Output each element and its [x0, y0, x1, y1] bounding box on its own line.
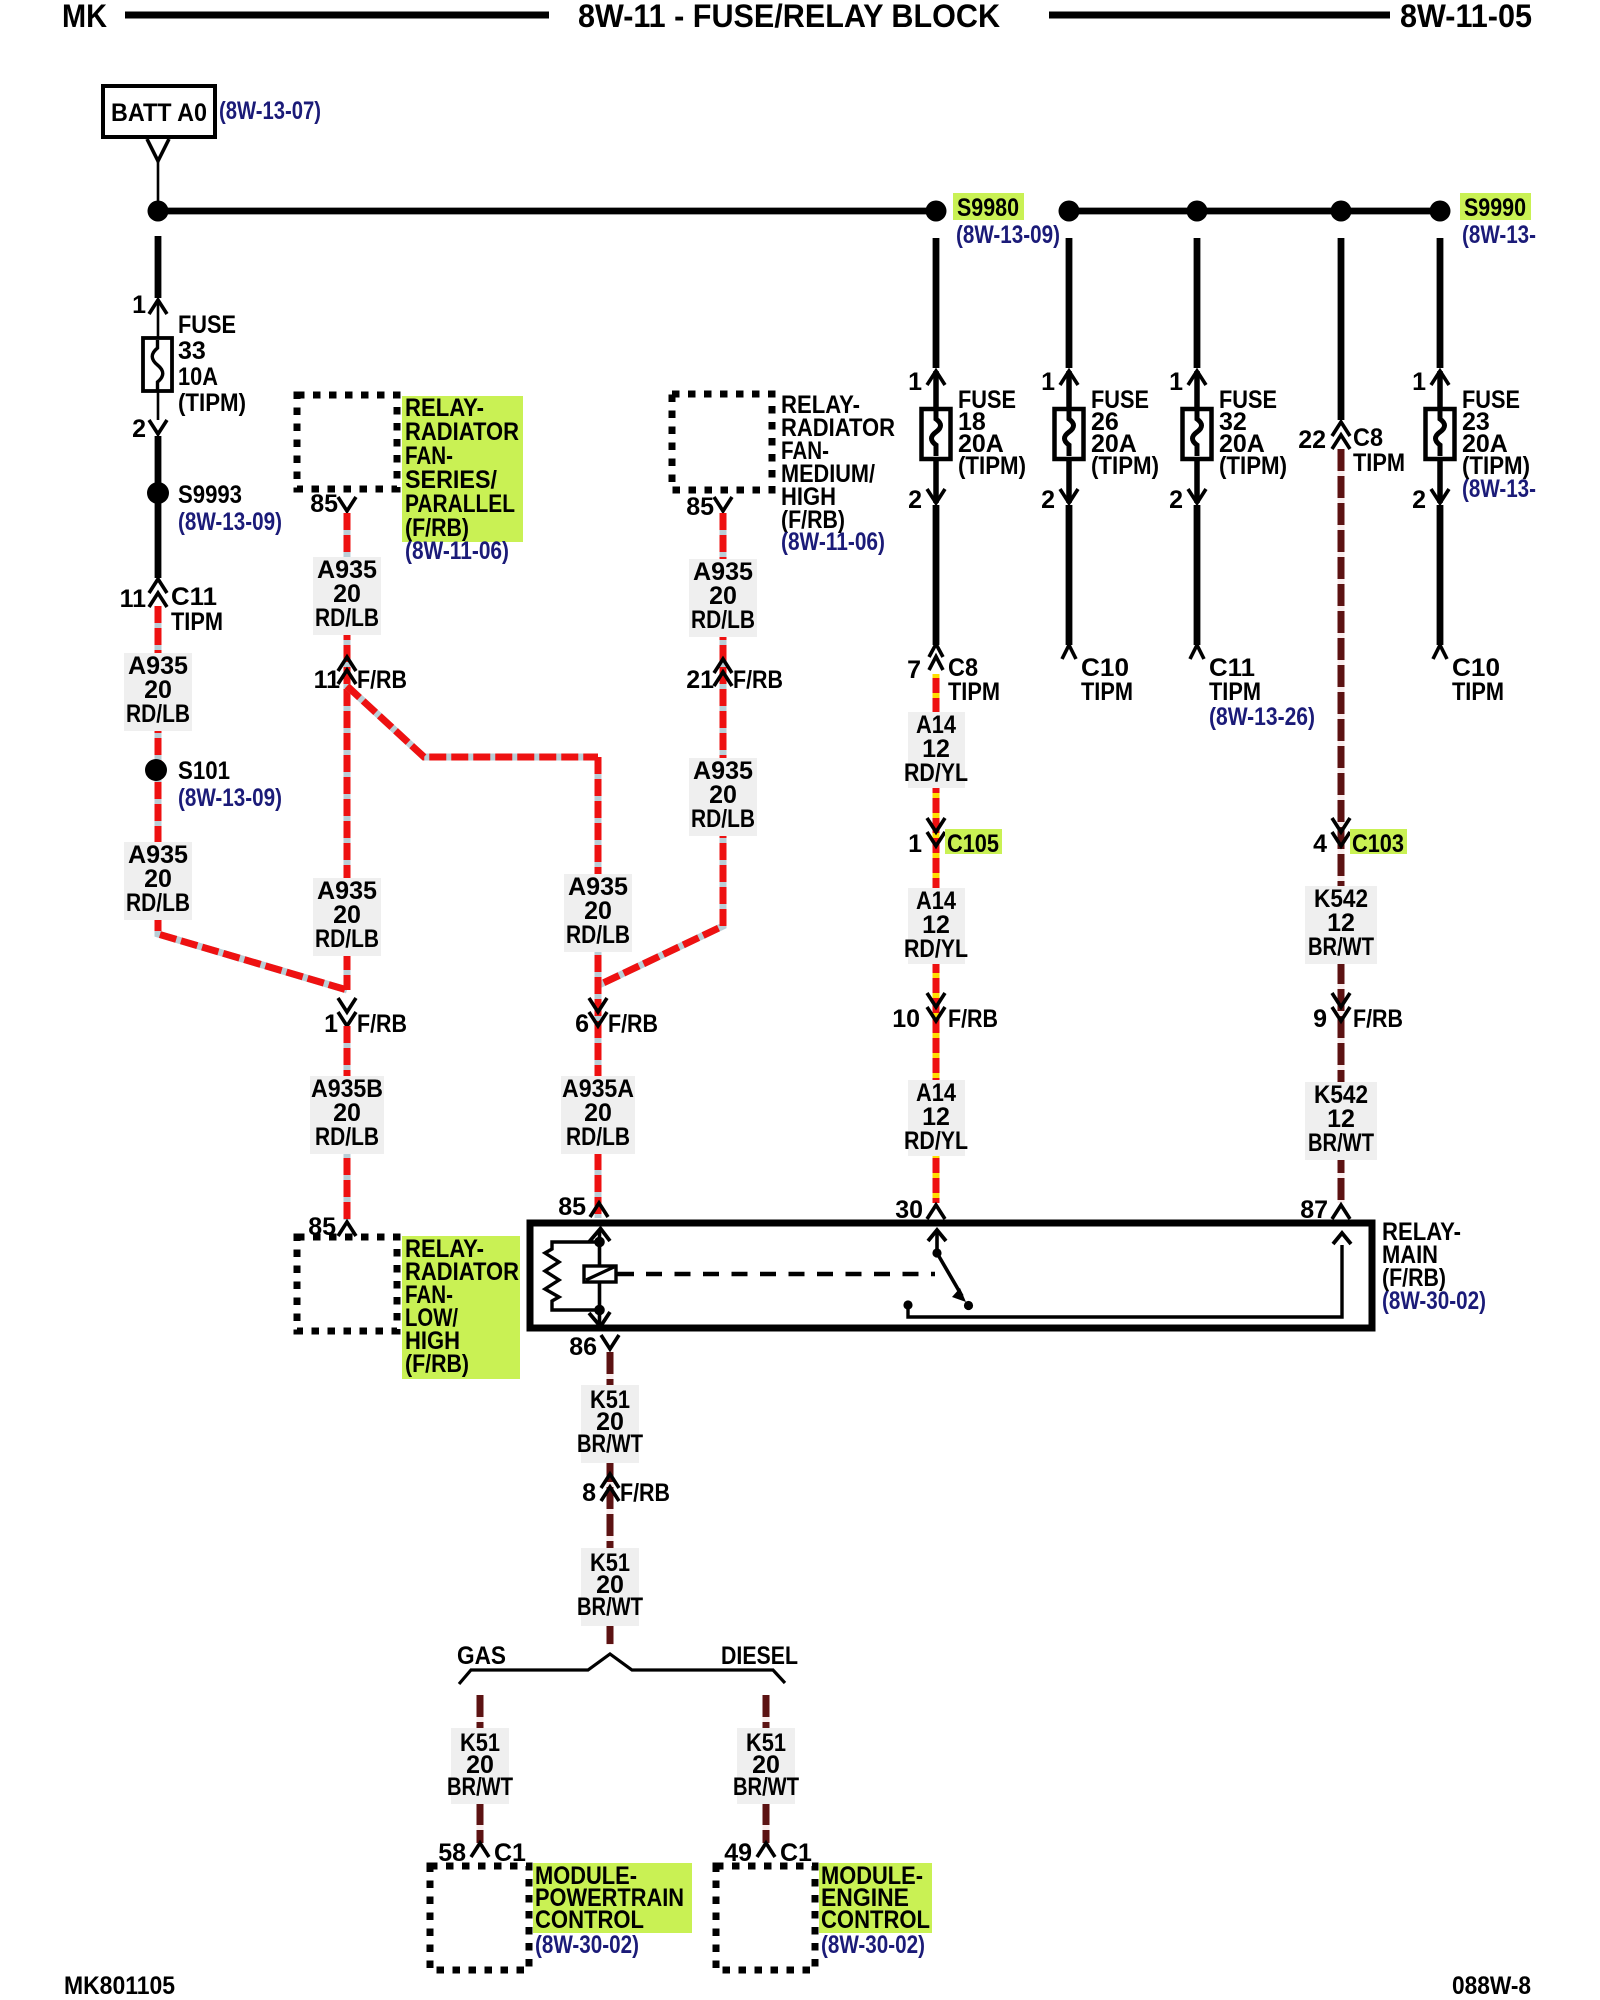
wire K51 20 BR/WT	[607, 1352, 614, 1645]
wire A935 20 RD/LB right run	[599, 513, 723, 985]
wire fuse 32 to C11	[1194, 505, 1201, 645]
svg-text:(8W-13-: (8W-13-	[1462, 221, 1536, 249]
svg-text:8W-11 - FUSE/RELAY BLOCK: 8W-11 - FUSE/RELAY BLOCK	[578, 0, 1000, 34]
header rule right	[1049, 12, 1390, 19]
svg-text:(8W-13-09): (8W-13-09)	[178, 784, 282, 812]
wire label K542 12 BR/WT	[1305, 1082, 1377, 1160]
fuse 33 10A (TIPM)	[143, 338, 172, 391]
svg-text:1: 1	[1412, 368, 1426, 396]
svg-text:RD/YL: RD/YL	[904, 1127, 968, 1155]
wire A935B 20 RD/LB	[344, 1026, 351, 1220]
relay main F/RB box	[530, 1223, 1372, 1328]
connector fork under BATT A0	[147, 139, 169, 161]
connector F/RB pin 9 arrows	[1332, 993, 1350, 1007]
svg-text:RD/LB: RD/LB	[566, 921, 630, 949]
wire label K51 20 BR/WT	[581, 1548, 639, 1626]
svg-text:8W-11-05: 8W-11-05	[1400, 0, 1532, 34]
svg-text:85: 85	[686, 493, 714, 521]
wire label A935 20 RD/LB	[124, 653, 192, 731]
relay coil resistor	[545, 1242, 599, 1310]
splice S9980 label	[953, 193, 1024, 220]
fuse 32 20A (TIPM)	[1183, 409, 1212, 459]
wire fuse 33 to connector C11	[155, 436, 162, 578]
svg-text:RD/LB: RD/LB	[126, 700, 190, 728]
wire through fuse 33	[157, 300, 160, 420]
wire label A935 20 RD/LB	[313, 878, 381, 956]
wire label A935 20 RD/LB	[313, 557, 381, 635]
svg-text:1: 1	[1169, 368, 1183, 396]
svg-text:CONTROL: CONTROL	[535, 1906, 644, 1934]
connector C1 pin 49 arrow	[757, 1843, 775, 1857]
svg-text:(8W-13-07): (8W-13-07)	[219, 97, 321, 125]
fuse 18 20A (TIPM)	[922, 409, 951, 459]
relay control dashed link	[616, 1272, 634, 1277]
svg-text:CONTROL: CONTROL	[821, 1906, 930, 1934]
connector F/RB pin 11 arrows	[338, 657, 356, 671]
svg-text:S9990: S9990	[1464, 194, 1526, 222]
brace gas/diesel split	[459, 1654, 785, 1684]
svg-text:088W-8: 088W-8	[1452, 1972, 1531, 2000]
svg-text:S101: S101	[178, 757, 230, 785]
connector C11 pin 11 arrows	[149, 579, 167, 593]
svg-text:(8W-30-02): (8W-30-02)	[1382, 1287, 1486, 1315]
connector F/RB pin 6 arrows	[589, 998, 607, 1012]
wire label A14 12 RD/YL	[908, 1080, 965, 1156]
wire through fuse 23	[1437, 371, 1443, 503]
svg-text:1: 1	[132, 291, 146, 319]
svg-text:C105: C105	[947, 830, 999, 858]
svg-text:(F/RB): (F/RB)	[405, 1350, 469, 1378]
relay radiator fan low/high box	[297, 1237, 397, 1331]
svg-text:2: 2	[908, 486, 922, 514]
junction dot	[1187, 201, 1208, 222]
connector F/RB pin 21 arrows	[714, 659, 732, 673]
wire label K51 20 BR/WT	[581, 1385, 639, 1463]
svg-text:TIPM: TIPM	[1209, 678, 1261, 706]
connector C8 pin 7 arrows	[929, 644, 943, 657]
connector F/RB pin 10 arrows	[927, 993, 945, 1007]
svg-text:1: 1	[908, 368, 922, 396]
wire branch to F/RB horizontal	[347, 686, 598, 757]
wire BATT A0 to bus	[157, 161, 160, 203]
wire label A935A 20 RD/LB	[561, 1076, 635, 1154]
connector C8 pin 22 arrows	[1332, 422, 1350, 436]
wire label A14 12 RD/YL	[908, 888, 965, 964]
svg-text:8: 8	[582, 1479, 596, 1507]
relay radiator fan medium/high box	[672, 394, 772, 490]
svg-text:22: 22	[1298, 426, 1326, 454]
svg-text:(8W-13-09): (8W-13-09)	[178, 508, 282, 536]
svg-text:TIPM: TIPM	[1081, 678, 1133, 706]
wire bus stub fuse 32 column	[1194, 238, 1201, 368]
svg-text:10A: 10A	[178, 363, 218, 391]
svg-text:11: 11	[120, 585, 147, 613]
svg-text:BR/WT: BR/WT	[577, 1430, 643, 1458]
module engine control box	[716, 1866, 815, 1970]
wire label A935 20 RD/LB	[689, 758, 757, 836]
svg-text:1: 1	[908, 830, 922, 858]
connector C103 pin 4 arrows	[1332, 818, 1350, 832]
wire bus segment 1	[158, 208, 936, 215]
svg-text:S9993: S9993	[178, 481, 242, 509]
svg-text:BATT A0: BATT A0	[111, 99, 207, 127]
connector C105 pin 1 arrows	[927, 818, 945, 832]
wire fuse 26 to C10	[1066, 505, 1073, 645]
wire A935 20 RD/LB center run	[344, 513, 351, 990]
svg-text:(8W-13-: (8W-13-	[1462, 475, 1536, 503]
svg-text:C11: C11	[171, 583, 217, 611]
wire label K51 20 BR/WT	[451, 1728, 509, 1804]
svg-text:2: 2	[132, 415, 146, 443]
svg-text:2: 2	[1041, 486, 1055, 514]
svg-text:RD/YL: RD/YL	[904, 935, 968, 963]
svg-text:F/RB: F/RB	[357, 666, 407, 694]
svg-text:DIESEL: DIESEL	[721, 1642, 798, 1670]
relay coil branch line	[598, 1230, 602, 1325]
connector C1 pin 58 arrow	[471, 1843, 489, 1857]
splice S9990 label	[1460, 193, 1531, 220]
wire label A935B 20 RD/LB	[310, 1076, 384, 1154]
wire through fuse 26	[1066, 371, 1072, 503]
svg-text:TIPM: TIPM	[171, 608, 223, 636]
svg-text:1: 1	[324, 1010, 338, 1038]
svg-text:F/RB: F/RB	[948, 1005, 998, 1033]
wire A14 12 RD/YL	[933, 674, 940, 1203]
module powertrain control box	[430, 1866, 529, 1970]
connector F/RB pin 8 arrows	[601, 1474, 619, 1488]
svg-text:BR/WT: BR/WT	[447, 1773, 513, 1801]
svg-text:(8W-11-06): (8W-11-06)	[405, 537, 509, 565]
svg-text:RD/LB: RD/LB	[315, 604, 379, 632]
svg-text:F/RB: F/RB	[733, 666, 783, 694]
wire bus stub C8 pin 22 column	[1338, 238, 1345, 420]
relay radiator fan series/parallel box	[297, 395, 397, 489]
wire label A935 20 RD/LB	[689, 559, 757, 637]
battery feed BATT A0	[103, 86, 215, 137]
svg-text:(8W-11-06): (8W-11-06)	[781, 528, 885, 556]
wire bus stub fuse 23 column	[1437, 238, 1444, 368]
svg-text:MK801105: MK801105	[64, 1972, 175, 2000]
svg-text:6: 6	[575, 1010, 589, 1038]
svg-text:2: 2	[1169, 486, 1183, 514]
svg-text:(TIPM): (TIPM)	[958, 452, 1026, 480]
relay switch common	[935, 1231, 939, 1253]
svg-text:(8W-13-26): (8W-13-26)	[1209, 703, 1315, 731]
wire bus stub fuse 26 column	[1066, 238, 1073, 368]
svg-text:TIPM: TIPM	[948, 678, 1000, 706]
wire A935A 20 RD/LB	[595, 757, 602, 1218]
wire bus segment 2	[1069, 208, 1440, 215]
svg-text:RD/LB: RD/LB	[691, 805, 755, 833]
svg-text:(8W-30-02): (8W-30-02)	[535, 1931, 639, 1959]
splice S9993	[147, 482, 169, 504]
svg-text:BR/WT: BR/WT	[733, 1773, 799, 1801]
splice S9990 dot	[1430, 201, 1451, 222]
svg-text:11: 11	[314, 666, 341, 694]
fuse 23 20A (TIPM)	[1426, 409, 1455, 459]
wire fuse 18 to C8	[933, 505, 940, 645]
svg-text:4: 4	[1313, 830, 1327, 858]
wire label K51 20 BR/WT	[737, 1728, 795, 1804]
svg-text:10: 10	[892, 1005, 920, 1033]
svg-text:21: 21	[686, 666, 714, 694]
fuse 26 20A (TIPM)	[1055, 409, 1084, 459]
relay switch blade	[937, 1253, 962, 1296]
relay coil element	[584, 1266, 616, 1282]
wire bus stub left column	[155, 236, 162, 298]
module powertrain control label highlighted	[533, 1863, 692, 1933]
header rule left	[125, 12, 549, 19]
wire through fuse 32	[1194, 371, 1200, 503]
relay switch contact to pin 87	[903, 1300, 912, 1309]
splice S101	[145, 759, 167, 781]
wire label A935 20 RD/LB	[124, 842, 192, 920]
svg-text:TIPM: TIPM	[1452, 678, 1504, 706]
svg-text:(TIPM): (TIPM)	[1219, 452, 1287, 480]
junction dot at BATT bus	[148, 201, 169, 222]
module engine control label highlighted	[819, 1863, 932, 1933]
svg-text:RD/LB: RD/LB	[315, 1123, 379, 1151]
wire K542 12 BR/WT	[1338, 449, 1345, 1203]
connector C10 arrow	[1062, 645, 1076, 659]
wire fuse 23 to C10	[1437, 505, 1444, 645]
relay series/parallel label highlighted	[402, 396, 523, 542]
svg-text:RD/LB: RD/LB	[315, 925, 379, 953]
svg-text:BR/WT: BR/WT	[1308, 933, 1374, 961]
svg-text:33: 33	[178, 337, 206, 365]
svg-text:85: 85	[558, 1193, 586, 1221]
connector F/RB pin 1 arrows	[338, 998, 356, 1012]
svg-text:(8W-13-09): (8W-13-09)	[956, 221, 1060, 249]
svg-text:7: 7	[907, 656, 921, 684]
svg-text:(TIPM): (TIPM)	[1091, 452, 1159, 480]
wire bus stub fuse 18 column	[933, 238, 940, 368]
wire label A14 12 RD/YL	[908, 712, 965, 788]
svg-text:BR/WT: BR/WT	[577, 1593, 643, 1621]
svg-text:(TIPM): (TIPM)	[178, 389, 246, 417]
svg-text:F/RB: F/RB	[357, 1010, 407, 1038]
splice S9980 dot	[926, 201, 947, 222]
svg-text:85: 85	[310, 490, 338, 518]
connector C11 arrow	[1190, 645, 1204, 659]
svg-text:RD/LB: RD/LB	[126, 889, 190, 917]
svg-text:F/RB: F/RB	[608, 1010, 658, 1038]
svg-text:GAS: GAS	[457, 1642, 506, 1670]
wire label K542 12 BR/WT	[1305, 886, 1377, 964]
svg-text:2: 2	[1412, 486, 1426, 514]
wire A935 20 RD/LB left run	[158, 606, 347, 990]
svg-text:C8: C8	[1353, 424, 1383, 452]
svg-text:RD/YL: RD/YL	[904, 759, 968, 787]
svg-text:F/RB: F/RB	[620, 1479, 670, 1507]
svg-text:(8W-30-02): (8W-30-02)	[821, 1931, 925, 1959]
svg-text:1: 1	[1041, 368, 1055, 396]
svg-text:F/RB: F/RB	[1353, 1005, 1403, 1033]
svg-text:9: 9	[1313, 1005, 1327, 1033]
wire K51 20 BR/WT gas branch	[477, 1695, 484, 1843]
junction dot	[1331, 201, 1352, 222]
svg-text:RD/LB: RD/LB	[691, 606, 755, 634]
svg-text:S9980: S9980	[957, 194, 1019, 222]
relay low/high label highlighted	[402, 1236, 520, 1379]
wire label A935 20 RD/LB	[564, 874, 632, 952]
wire through fuse 18	[933, 371, 939, 503]
svg-text:TIPM: TIPM	[1353, 449, 1405, 477]
svg-text:86: 86	[569, 1333, 597, 1361]
svg-text:BR/WT: BR/WT	[1308, 1129, 1374, 1157]
wire K51 20 BR/WT diesel branch	[763, 1695, 770, 1843]
svg-text:RD/LB: RD/LB	[566, 1123, 630, 1151]
svg-text:C103: C103	[1352, 830, 1404, 858]
svg-text:MK: MK	[62, 0, 107, 34]
junction dot	[1059, 201, 1080, 222]
connector C10 arrow	[1433, 645, 1447, 659]
svg-text:FUSE: FUSE	[178, 311, 236, 339]
